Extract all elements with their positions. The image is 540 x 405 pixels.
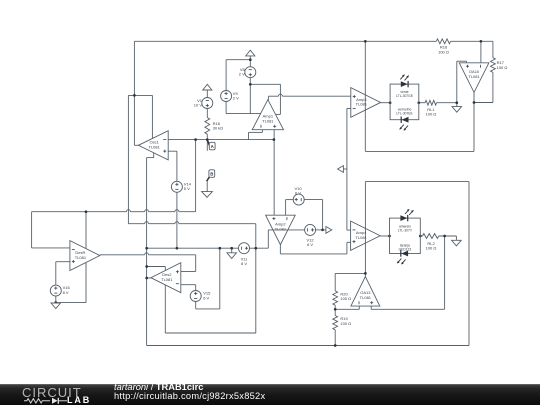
svg-text:6 V: 6 V — [307, 242, 313, 247]
svg-text:2 V: 2 V — [233, 96, 239, 101]
svg-text:100 Ω: 100 Ω — [426, 112, 437, 117]
svg-text:2 V: 2 V — [239, 72, 245, 77]
svg-text:TL081: TL081 — [356, 102, 368, 107]
svg-text:TL081: TL081 — [262, 118, 274, 123]
svg-text:GED123: GED123 — [399, 247, 412, 251]
svg-text:TL081: TL081 — [468, 74, 480, 79]
svg-text:LTL-307EE: LTL-307EE — [396, 112, 413, 116]
svg-text:TL081: TL081 — [275, 226, 287, 231]
svg-text:TL081: TL081 — [360, 295, 372, 300]
svg-text:TL081: TL081 — [161, 277, 173, 282]
svg-text:5 V: 5 V — [184, 186, 190, 191]
svg-text:LTL-307GE: LTL-307GE — [396, 94, 414, 98]
svg-text:6 V: 6 V — [295, 190, 301, 195]
svg-text:30 kΩ: 30 kΩ — [213, 126, 224, 131]
svg-text:100 Ω: 100 Ω — [438, 49, 449, 54]
svg-text:10 V: 10 V — [194, 103, 203, 108]
svg-text:100 Ω: 100 Ω — [340, 296, 351, 301]
svg-text:8 V: 8 V — [63, 290, 69, 295]
svg-text:100 Ω: 100 Ω — [497, 65, 508, 70]
svg-text:B: B — [210, 171, 213, 176]
svg-text:100 Ω: 100 Ω — [426, 246, 437, 251]
svg-text:8 V: 8 V — [241, 261, 247, 266]
svg-text:LTL-307Y: LTL-307Y — [398, 228, 413, 232]
svg-text:TL081: TL081 — [75, 255, 87, 260]
svg-text:TL081: TL081 — [149, 145, 161, 150]
svg-text:100 Ω: 100 Ω — [340, 321, 351, 326]
svg-text:6 V: 6 V — [203, 295, 209, 300]
